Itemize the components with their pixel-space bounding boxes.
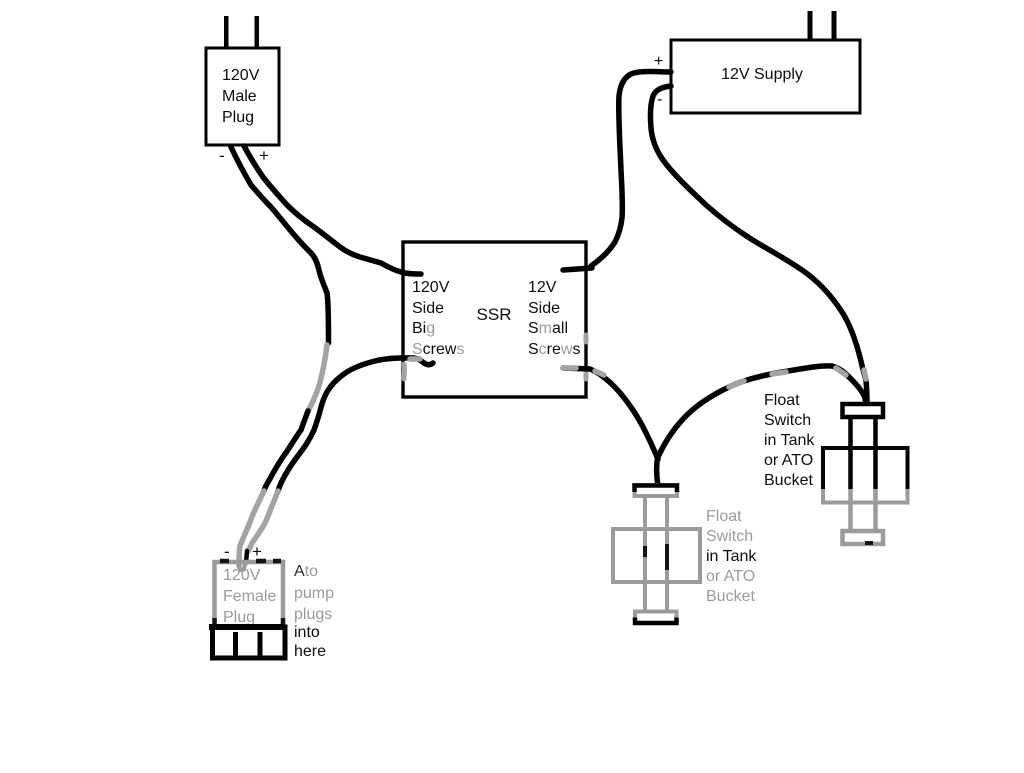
svg-text:Switch: Switch [764, 412, 811, 429]
svg-text:+: + [259, 146, 269, 165]
svg-text:into: into [294, 624, 320, 641]
svg-text:plugs: plugs [294, 606, 332, 623]
gray dash on supply minus wire near float [864, 370, 866, 379]
svg-text:12V: 12V [528, 279, 557, 296]
svg-text:Bucket: Bucket [706, 588, 755, 605]
svg-text:Female: Female [223, 588, 276, 605]
svg-text:here: here [294, 643, 326, 660]
ato caption [294, 563, 334, 660]
wire: gray part to female plug + [248, 491, 278, 551]
svg-text:-: - [219, 146, 225, 165]
svg-text:Screws: Screws [528, 341, 580, 358]
wire: male plug - down (black upper part) [231, 147, 329, 343]
svg-text:12V Supply: 12V Supply [721, 66, 803, 83]
wire: gray mid transition segment [308, 345, 327, 411]
socket top thick bar [209, 624, 285, 630]
svg-text:120V: 120V [412, 279, 450, 296]
svg-text:Switch: Switch [706, 528, 753, 545]
middle float caption [706, 508, 757, 605]
gray dash on rising wire 2 [772, 372, 786, 374]
middle float stem inside body [645, 529, 667, 582]
gray dash on rising wire 3 [836, 368, 846, 375]
socket divider 1 [233, 632, 238, 658]
right float bottom bar black dash [865, 541, 873, 545]
gray squiggle on SSR right edge upper [584, 335, 589, 342]
wire: male plug + to SSR 120V screw 1 [244, 146, 421, 274]
svg-text:-: - [224, 542, 230, 561]
right float stem upper black [851, 417, 876, 489]
120V female plug box (gray, three sides) [215, 562, 284, 627]
supply prong 1 [808, 11, 813, 40]
svg-text:Side: Side [528, 300, 560, 317]
middle float stem upper [645, 497, 667, 529]
svg-text:Big: Big [412, 320, 435, 337]
female plug side black lower bits [215, 618, 284, 627]
wire: 12V supply - to right float switch [650, 86, 867, 404]
right float caption [764, 392, 815, 489]
svg-text:Side: Side [412, 300, 444, 317]
svg-text:SSR: SSR [477, 305, 512, 324]
svg-text:Screws: Screws [412, 341, 464, 358]
svg-text:Small: Small [528, 320, 568, 337]
wire: black segment to female plug - [264, 411, 308, 491]
svg-text:in Tank: in Tank [706, 548, 757, 565]
svg-text:Plug: Plug [223, 609, 255, 626]
middle float top bar [635, 485, 678, 496]
socket divider 2 [258, 632, 263, 658]
svg-text:pump: pump [294, 585, 334, 602]
wire: SSR 120V screw 2 to female plug + (black part) [278, 358, 433, 491]
svg-text:120V: 120V [222, 67, 260, 84]
wire: SSR 12V screw 1 stub [563, 268, 592, 270]
120V male plug box [206, 48, 279, 145]
svg-text:Male: Male [222, 88, 257, 105]
gray dash on V-wire mid [595, 371, 604, 375]
female plug label [223, 567, 276, 626]
right float body black top/sides [823, 448, 908, 489]
male plug label [222, 67, 260, 126]
right float stem gray lower [851, 489, 876, 531]
gray dash on V-wire near SSR [563, 365, 576, 371]
gray stub dash on SSR 120V screw 2 [410, 356, 420, 362]
wire: SSR 12V screw 2 V-wire to floats [563, 368, 658, 459]
SSR box [403, 242, 586, 397]
wire: branch down to middle float switch [657, 455, 659, 486]
svg-text:+: + [654, 53, 663, 70]
right float body [823, 448, 908, 503]
svg-text:in Tank: in Tank [764, 432, 815, 449]
male plug prong 2 [255, 16, 260, 49]
svg-text:or ATO: or ATO [706, 568, 755, 585]
middle float stem lower [645, 582, 667, 612]
middle float body [613, 529, 700, 582]
female plug black socket section [213, 627, 286, 658]
wire: branch up-right to right float switch [658, 366, 866, 457]
wire: 12V supply + to SSR 12V screw 1 [591, 72, 671, 267]
middle float top bar black edge [635, 486, 678, 493]
svg-text:120V: 120V [223, 567, 261, 584]
SSR 120V side label [412, 279, 464, 358]
svg-text:Float: Float [764, 392, 800, 409]
middle float black dashes on stem [645, 544, 667, 570]
12V supply box [671, 40, 860, 113]
gray squiggle on SSR right edge lower [584, 372, 589, 379]
gray squiggle on SSR left edge [402, 364, 407, 379]
SSR 12V side label [528, 279, 580, 358]
female plug top edge black dashes [220, 559, 281, 564]
svg-text:Ato: Ato [294, 563, 318, 580]
svg-text:Plug: Plug [222, 109, 254, 126]
gray dash on rising wire 1 [729, 381, 744, 387]
male plug prong 1 [224, 16, 229, 49]
middle float bottom bar black edge [635, 618, 677, 624]
svg-text:Bucket: Bucket [764, 472, 813, 489]
svg-text:Float: Float [706, 508, 742, 525]
svg-text:+: + [252, 542, 262, 561]
right float top bar [843, 404, 884, 417]
wire: gray segment to female plug - [239, 491, 264, 566]
right float bottom bar [843, 531, 884, 544]
svg-text:or ATO: or ATO [764, 452, 813, 469]
supply prong 2 [832, 11, 837, 40]
female plug gray wire stubs inside [239, 562, 246, 572]
wire: black tip into female plug + [246, 551, 247, 563]
middle float bottom bar [635, 612, 677, 624]
